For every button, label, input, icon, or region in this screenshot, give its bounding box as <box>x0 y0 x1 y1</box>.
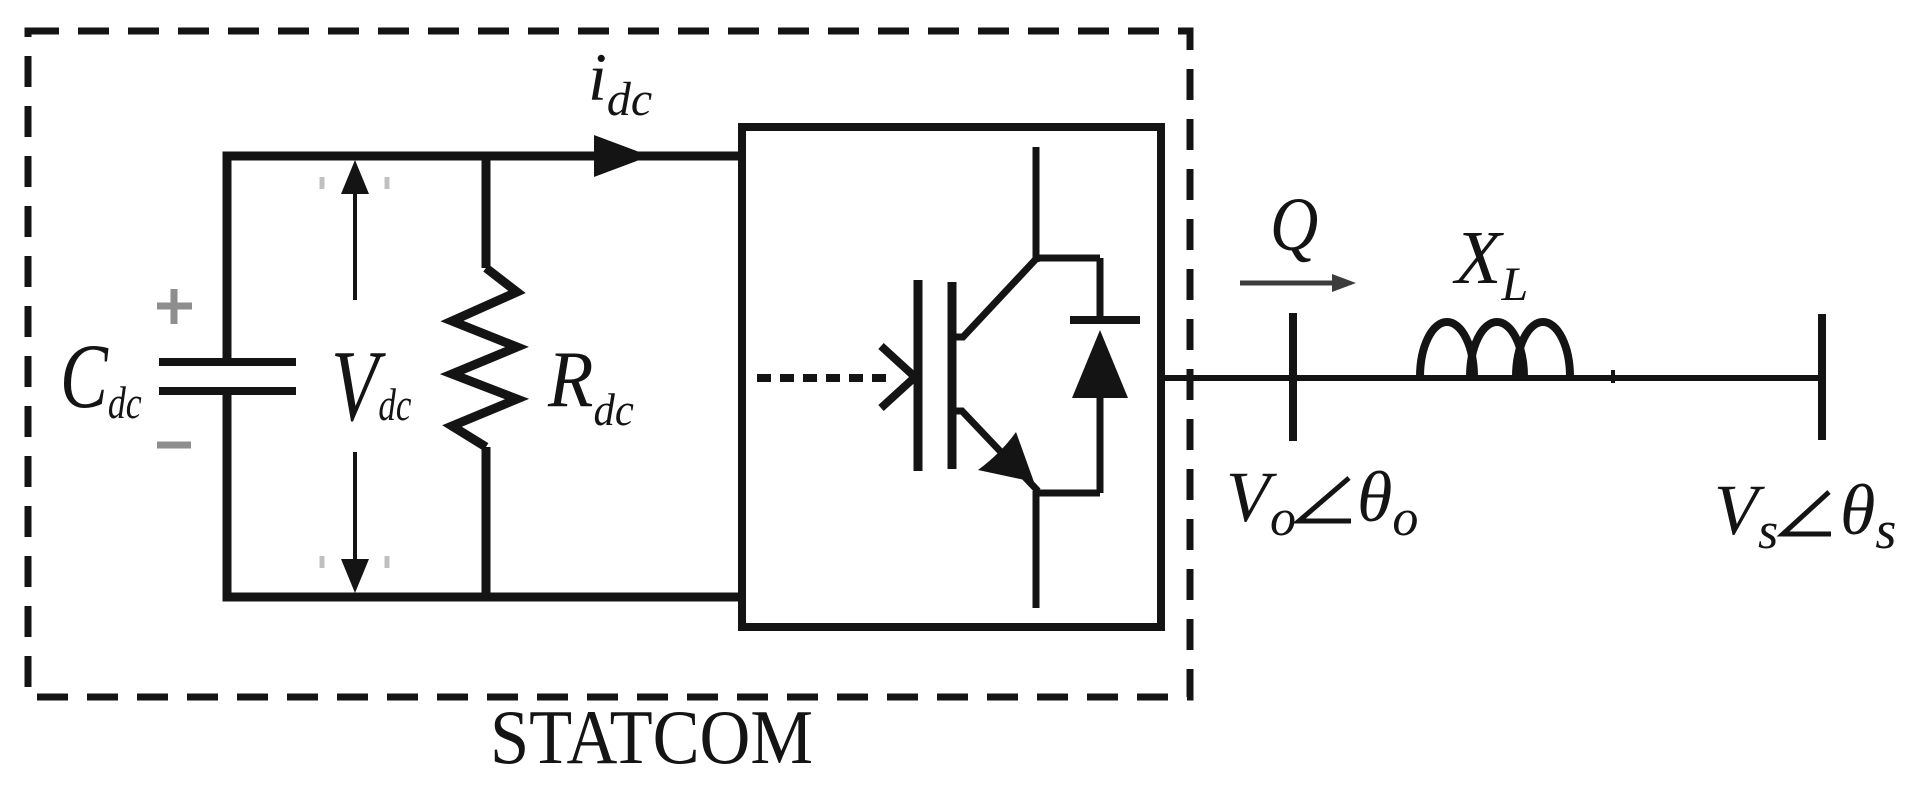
wire: emitter rail to box bottom <box>1033 491 1040 608</box>
IGBT Q1 collector lead <box>952 259 1036 337</box>
label R_dc <box>547 335 634 436</box>
IGBT Q1 gate bar <box>914 280 923 471</box>
stray mark left of top arrowhead <box>320 177 325 189</box>
IGBT Q1 emitter lead <box>952 411 1038 491</box>
wire: top horizontal to diode branch <box>1033 255 1100 262</box>
wire: bottom horizontal from emitter to diode branch <box>1033 490 1100 497</box>
node V_dc measurement arrow (double-headed) <box>353 190 357 560</box>
wire: collector rail to box top <box>1033 147 1040 262</box>
svg-text:Vs: Vs <box>1714 470 1778 560</box>
angle symbol of V_o <box>1299 478 1351 521</box>
label i_dc <box>588 39 652 126</box>
stray mark left of bottom arrowhead <box>320 556 325 568</box>
capacitor C_dc top plate <box>159 358 296 366</box>
wire: diode branch upper segment <box>1097 258 1104 318</box>
IGBT Q1 emitter arrowhead <box>978 432 1034 482</box>
polarity plus sign <box>157 289 192 324</box>
svg-text:θo: θo <box>1357 457 1418 547</box>
bus bar node V_o <box>1289 313 1297 441</box>
svg-text:θs: θs <box>1840 470 1896 560</box>
svg-text:Vdc: Vdc <box>331 329 411 443</box>
label X_L <box>1452 216 1528 311</box>
gate open arrowhead <box>881 346 915 408</box>
resistor R_dc zigzag <box>452 268 517 447</box>
wire: top DC bus from capacitor to converter box <box>227 156 742 363</box>
converter box (VSC) <box>742 127 1161 627</box>
capacitor C_dc bottom plate <box>159 387 296 395</box>
current arrow i_dc on top bus <box>594 135 650 177</box>
label V_dc <box>331 329 411 443</box>
diode D1 cathode bar <box>1070 316 1140 324</box>
svg-text:XL: XL <box>1452 216 1528 311</box>
svg-text:Rdc: Rdc <box>547 335 634 436</box>
svg-text:idc: idc <box>588 39 652 126</box>
stray mark right of top arrowhead <box>385 177 390 189</box>
gate control dashed line <box>757 374 891 382</box>
reactive power flow arrow Q <box>1240 281 1338 286</box>
angle symbol of V_s <box>1783 492 1831 534</box>
IGBT Q1 body bar <box>948 282 957 469</box>
dashed enclosure boundary of STATCOM <box>28 31 1190 697</box>
wire: AC output from converter to source bus <box>1161 375 1819 381</box>
bus bar node V_s <box>1818 314 1826 440</box>
wire: diode branch lower segment <box>1097 396 1104 493</box>
label Q <box>1270 183 1318 267</box>
svg-text:STATCOM: STATCOM <box>490 694 813 780</box>
svg-text:Q: Q <box>1270 183 1318 267</box>
svg-text:Cdc: Cdc <box>60 324 142 428</box>
label C_dc <box>60 324 142 428</box>
junction tick on AC wire <box>1611 370 1615 383</box>
stray mark right of bottom arrowhead <box>385 556 390 568</box>
wire: bottom DC bus from capacitor to converter box <box>227 390 746 597</box>
resistor R_dc connecting wires <box>482 152 491 268</box>
svg-text:Vo: Vo <box>1226 457 1296 547</box>
diode D1 body (anode triangle) <box>1072 330 1128 398</box>
polarity minus sign <box>157 442 191 449</box>
inductor X_L winding <box>1420 322 1474 377</box>
